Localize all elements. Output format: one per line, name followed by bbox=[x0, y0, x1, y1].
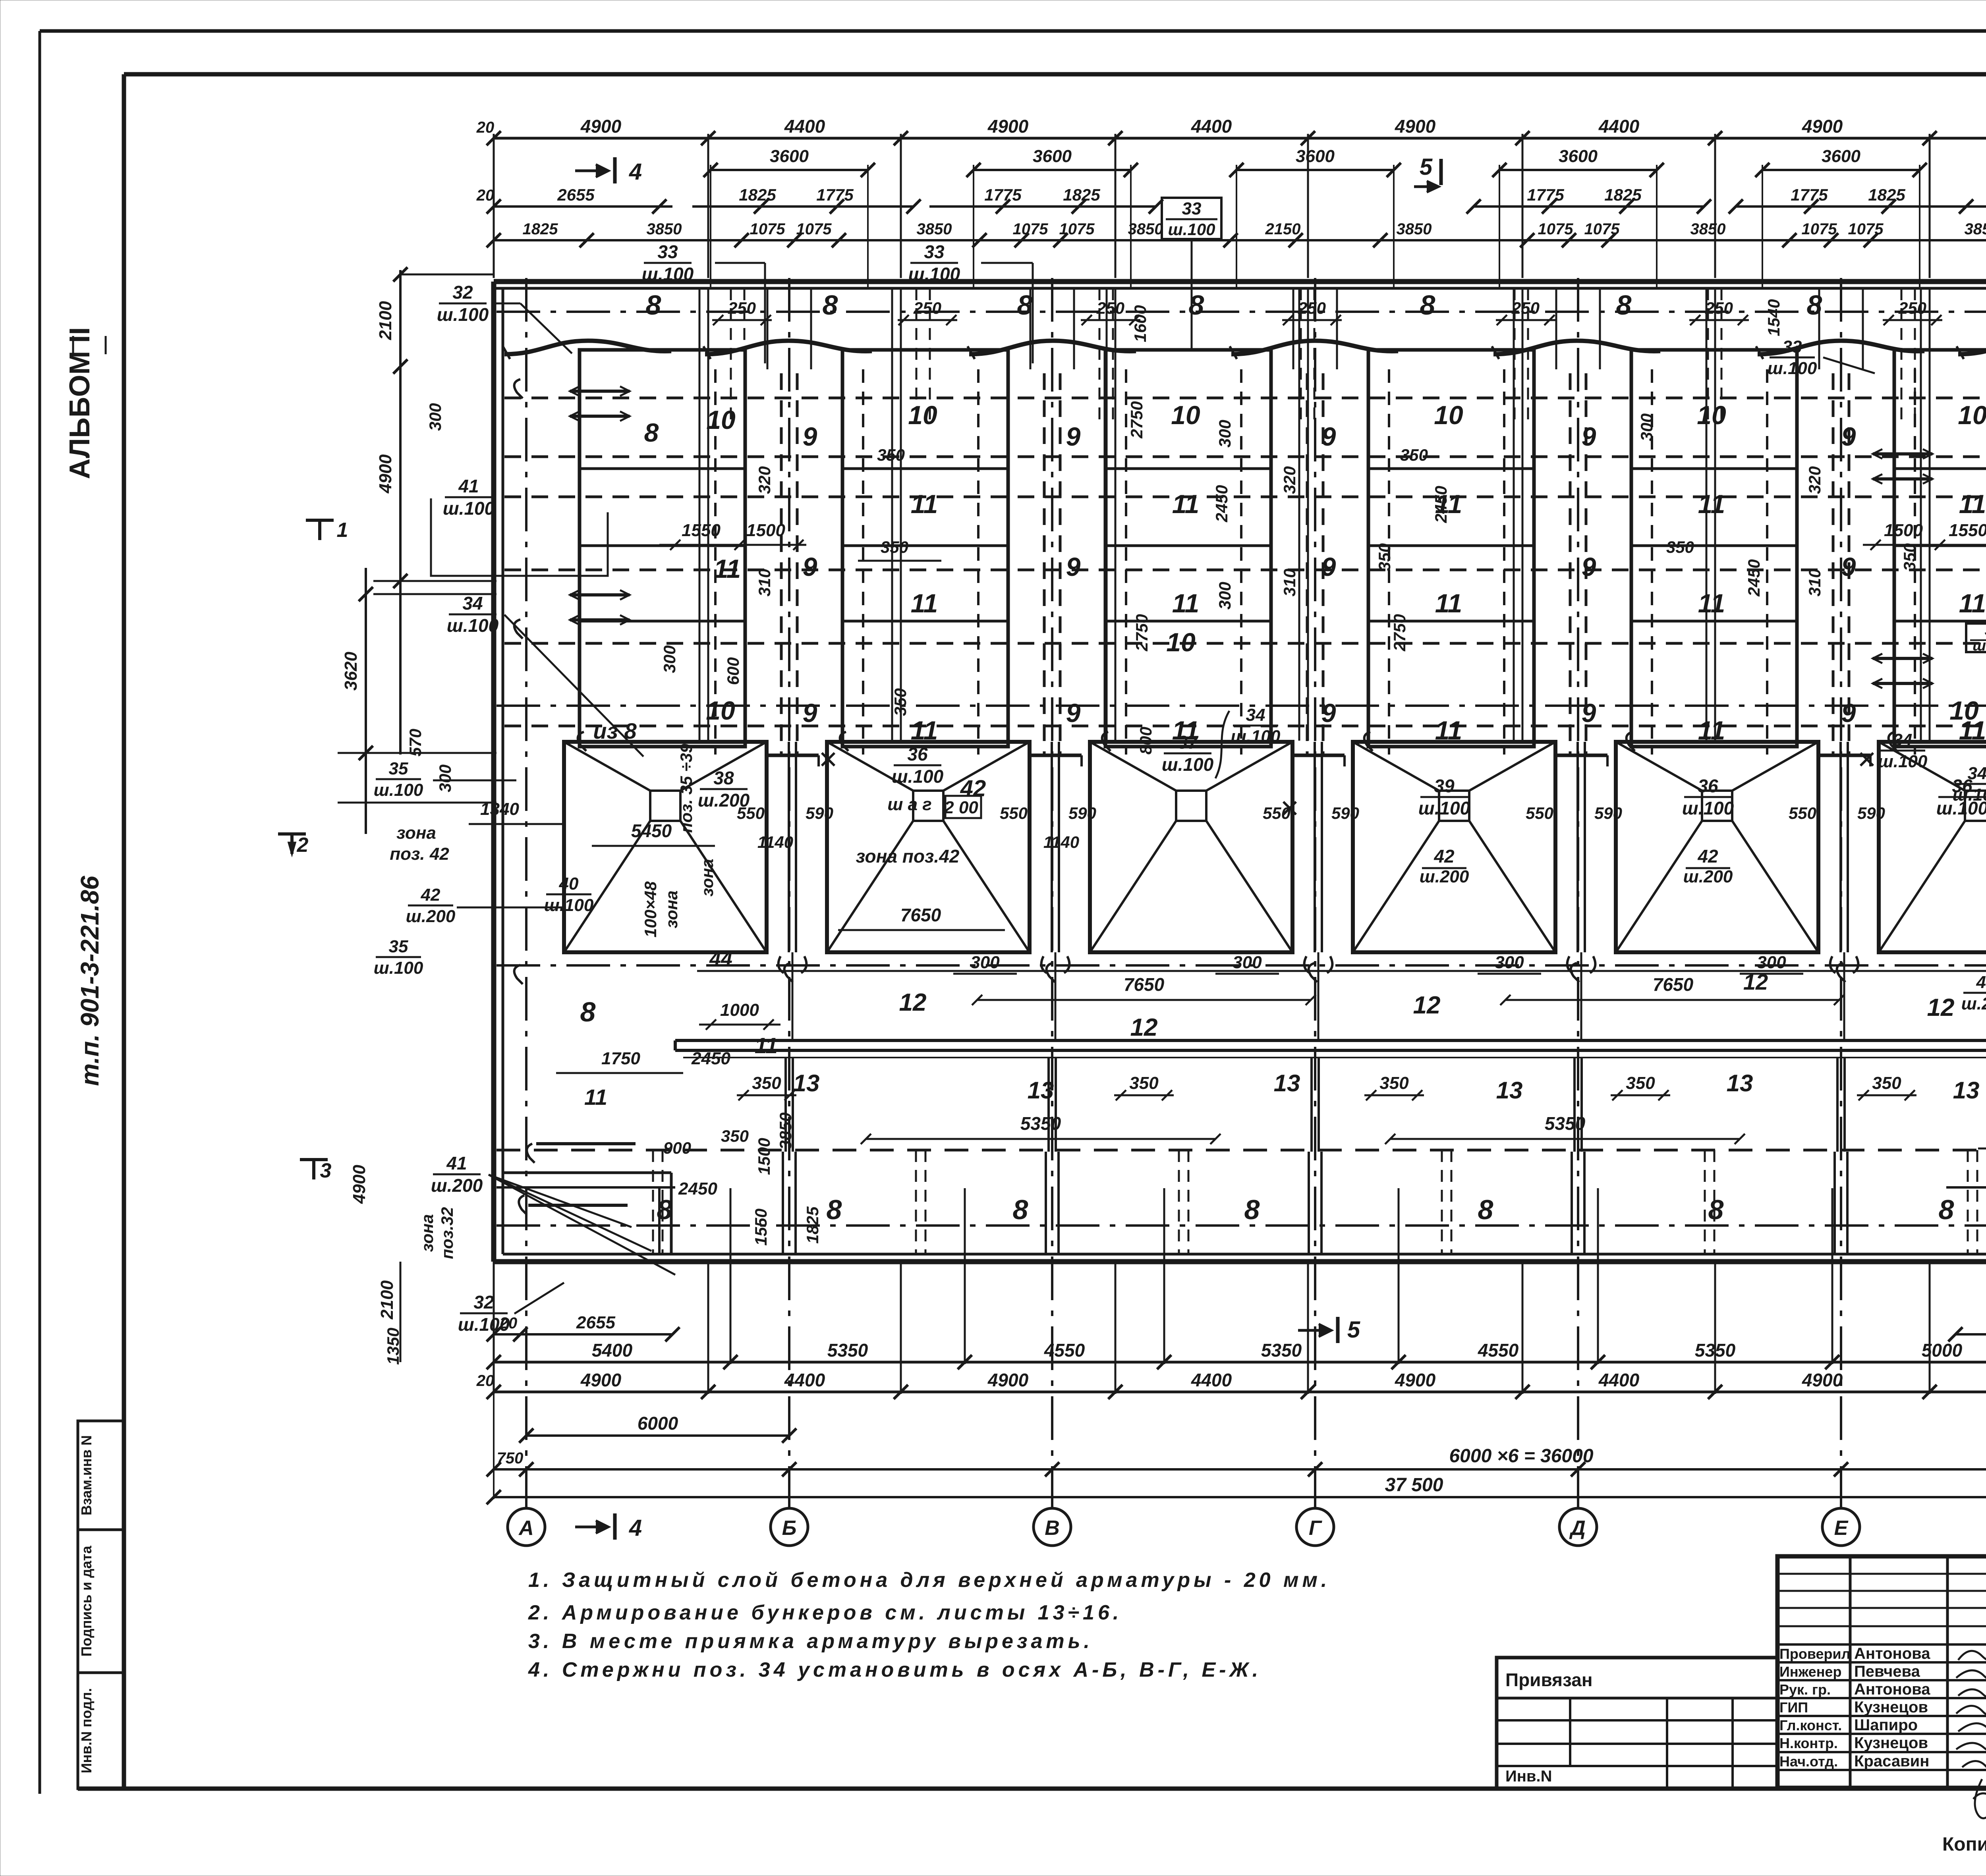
svg-text:1075: 1075 bbox=[1848, 220, 1884, 238]
svg-text:350: 350 bbox=[1129, 1073, 1159, 1093]
svg-text:В: В bbox=[1045, 1517, 1060, 1540]
svg-text:350: 350 bbox=[1626, 1073, 1655, 1093]
svg-text:3600: 3600 bbox=[1559, 147, 1598, 166]
svg-text:1825: 1825 bbox=[803, 1206, 822, 1244]
svg-text:9: 9 bbox=[1841, 552, 1856, 581]
svg-text:11: 11 bbox=[714, 554, 741, 583]
svg-text:20: 20 bbox=[476, 187, 495, 204]
svg-text:300: 300 bbox=[436, 764, 454, 792]
svg-text:4400: 4400 bbox=[1598, 116, 1640, 137]
svg-text:4550: 4550 bbox=[1044, 1340, 1085, 1361]
svg-text:Рук. гр.: Рук. гр. bbox=[1779, 1681, 1831, 1698]
svg-text:11: 11 bbox=[1698, 589, 1725, 618]
svg-text:4550: 4550 bbox=[1478, 1340, 1519, 1361]
svg-text:9: 9 bbox=[1582, 552, 1596, 581]
svg-text:Г: Г bbox=[1309, 1517, 1322, 1540]
svg-text:10: 10 bbox=[1434, 400, 1463, 430]
svg-text:250: 250 bbox=[1511, 299, 1540, 317]
svg-text:1550: 1550 bbox=[682, 521, 721, 540]
svg-text:4900: 4900 bbox=[580, 1370, 622, 1390]
svg-text:1: 1 bbox=[337, 519, 348, 542]
svg-text:Е: Е bbox=[1834, 1517, 1849, 1540]
svg-text:900: 900 bbox=[663, 1139, 691, 1157]
svg-text:1140: 1140 bbox=[1043, 833, 1079, 851]
svg-text:1500: 1500 bbox=[1884, 521, 1923, 540]
svg-text:34: 34 bbox=[462, 593, 483, 614]
svg-text:5450: 5450 bbox=[631, 820, 672, 841]
svg-text:Певчева: Певчева bbox=[1854, 1663, 1920, 1680]
svg-text:12: 12 bbox=[1130, 1014, 1158, 1041]
svg-text:250: 250 bbox=[1898, 299, 1926, 317]
svg-text:4400: 4400 bbox=[784, 116, 825, 137]
svg-text:10: 10 bbox=[706, 405, 736, 434]
svg-text:11: 11 bbox=[911, 489, 938, 519]
svg-text:8: 8 bbox=[1939, 1194, 1954, 1225]
svg-text:ш.100: ш.100 bbox=[544, 896, 594, 915]
axis horizontal dash-dot lines bbox=[496, 311, 1986, 313]
hopper 4 bbox=[1353, 742, 1555, 952]
svg-text:13: 13 bbox=[793, 1070, 820, 1096]
svg-text:Проверил: Проверил bbox=[1779, 1646, 1851, 1662]
svg-text:3850: 3850 bbox=[1128, 220, 1163, 238]
svg-text:32: 32 bbox=[452, 282, 473, 303]
svg-text:350: 350 bbox=[1400, 446, 1428, 464]
zone boundary verticals inside plan bbox=[707, 288, 709, 741]
svg-text:750: 750 bbox=[497, 1449, 524, 1467]
svg-text:Н.контр.: Н.контр. bbox=[1779, 1735, 1838, 1751]
column strip dashed lines bbox=[780, 373, 783, 757]
svg-text:зона: зона bbox=[662, 890, 681, 928]
svg-text:6000 ×6 = 36000: 6000 ×6 = 36000 bbox=[1449, 1446, 1593, 1467]
page border outer bbox=[40, 29, 1986, 33]
svg-text:9: 9 bbox=[803, 552, 817, 581]
inner frame bbox=[124, 72, 1986, 77]
svg-text:1500: 1500 bbox=[746, 521, 785, 540]
svg-text:8: 8 bbox=[1244, 1194, 1260, 1225]
svg-text:9: 9 bbox=[1582, 698, 1596, 728]
svg-text:2750: 2750 bbox=[1390, 614, 1409, 651]
svg-text:310: 310 bbox=[1280, 569, 1299, 596]
hopper gap walls bbox=[788, 742, 790, 952]
svg-text:250: 250 bbox=[1298, 299, 1326, 317]
svg-text:11: 11 bbox=[1698, 489, 1725, 519]
svg-text:3850: 3850 bbox=[776, 1112, 795, 1149]
section mark 4 top bbox=[575, 170, 608, 172]
svg-text:6000: 6000 bbox=[638, 1413, 678, 1434]
hopper 3 bbox=[1090, 742, 1292, 952]
svg-text:10: 10 bbox=[1958, 400, 1986, 430]
svg-text:1775: 1775 bbox=[984, 185, 1022, 204]
svg-text:1. Защитный слой бетона для ве: 1. Защитный слой бетона для верхней арма… bbox=[528, 1569, 1330, 1592]
svg-text:11: 11 bbox=[1435, 589, 1462, 618]
svg-text:590: 590 bbox=[806, 804, 833, 822]
svg-text:300: 300 bbox=[426, 403, 444, 431]
svg-text:4: 4 bbox=[629, 159, 642, 185]
left dim chain bbox=[399, 270, 402, 755]
svg-text:2450: 2450 bbox=[1212, 485, 1231, 522]
svg-text:Шапиро: Шапиро bbox=[1854, 1716, 1918, 1734]
svg-text:ш.100: ш.100 bbox=[443, 498, 495, 519]
svg-text:9: 9 bbox=[1582, 422, 1596, 451]
svg-text:550: 550 bbox=[1263, 804, 1291, 822]
svg-text:4900: 4900 bbox=[987, 1370, 1029, 1390]
horizontal dashed lines bunker zone bbox=[504, 397, 1986, 400]
vertical bars top of bays bbox=[767, 288, 769, 369]
svg-text:300: 300 bbox=[1637, 413, 1656, 441]
svg-text:Подпись и дата: Подпись и дата bbox=[78, 1546, 95, 1657]
svg-text:поз. 35 ÷39: поз. 35 ÷39 bbox=[677, 743, 695, 833]
top dim row 3 bbox=[494, 205, 672, 208]
svg-text:300: 300 bbox=[970, 953, 1000, 972]
svg-text:из 8: из 8 bbox=[593, 718, 637, 743]
svg-text:1550: 1550 bbox=[752, 1208, 770, 1245]
axis vertical dash-dot lines bbox=[525, 278, 527, 1508]
svg-text:9: 9 bbox=[1321, 552, 1336, 581]
svg-text:Инв.N подл.: Инв.N подл. bbox=[78, 1688, 95, 1774]
svg-text:590: 590 bbox=[1331, 804, 1359, 822]
svg-text:4400: 4400 bbox=[784, 1370, 825, 1390]
privyazan table bbox=[1497, 1658, 1777, 1789]
svg-text:Антонова: Антонова bbox=[1854, 1645, 1930, 1662]
svg-text:зона: зона bbox=[418, 1214, 437, 1252]
section mark 5 bottom bbox=[1298, 1329, 1331, 1332]
long dashed line bbox=[496, 1149, 1986, 1152]
svg-text:10: 10 bbox=[1166, 627, 1196, 657]
bottom dim 37500 bbox=[494, 1496, 1986, 1498]
svg-text:9: 9 bbox=[1841, 698, 1856, 728]
svg-text:550: 550 bbox=[1789, 804, 1816, 822]
svg-text:Инженер: Инженер bbox=[1779, 1664, 1841, 1680]
svg-text:ш.100: ш.100 bbox=[1682, 798, 1734, 818]
svg-text:300: 300 bbox=[1495, 953, 1524, 972]
svg-text:3850: 3850 bbox=[647, 220, 682, 238]
svg-text:3850: 3850 bbox=[1397, 220, 1432, 238]
svg-text:ш.100: ш.100 bbox=[892, 766, 944, 787]
svg-text:4: 4 bbox=[629, 1515, 642, 1541]
top dim row 4 bbox=[494, 239, 1986, 241]
svg-text:2750: 2750 bbox=[1132, 614, 1151, 651]
svg-text:39: 39 bbox=[1434, 776, 1455, 796]
bottom dim rowB bbox=[494, 1361, 1986, 1364]
svg-text:7650: 7650 bbox=[900, 905, 941, 925]
svg-text:4900: 4900 bbox=[1395, 1370, 1436, 1390]
bottom dim rowC bbox=[494, 1391, 1986, 1393]
svg-text:1775: 1775 bbox=[1527, 185, 1564, 204]
left attribute boxes bbox=[78, 1421, 124, 1530]
svg-text:ш.100: ш.100 bbox=[1953, 785, 1986, 805]
svg-text:34: 34 bbox=[1246, 705, 1265, 725]
svg-text:1075: 1075 bbox=[1538, 220, 1574, 238]
svg-text:35: 35 bbox=[389, 937, 408, 956]
svg-text:9: 9 bbox=[1066, 552, 1081, 581]
svg-text:34: 34 bbox=[1968, 764, 1986, 783]
svg-text:1750: 1750 bbox=[601, 1049, 640, 1068]
svg-text:1825: 1825 bbox=[739, 185, 776, 204]
svg-text:ш.200: ш.200 bbox=[1961, 994, 1986, 1013]
svg-text:4900: 4900 bbox=[580, 116, 622, 137]
svg-text:20: 20 bbox=[476, 1372, 495, 1390]
svg-text:310: 310 bbox=[755, 569, 774, 596]
svg-text:350: 350 bbox=[752, 1073, 781, 1093]
svg-text:Нач.отд.: Нач.отд. bbox=[1779, 1753, 1838, 1770]
svg-text:1825: 1825 bbox=[1604, 185, 1642, 204]
svg-text:41: 41 bbox=[458, 476, 479, 496]
svg-text:8: 8 bbox=[1013, 1194, 1028, 1225]
svg-text:2450: 2450 bbox=[1432, 486, 1450, 523]
svg-text:1075: 1075 bbox=[796, 220, 832, 238]
svg-text:320: 320 bbox=[1280, 466, 1299, 494]
svg-text:13: 13 bbox=[1953, 1077, 1980, 1104]
svg-text:А: А bbox=[518, 1517, 534, 1540]
svg-text:12: 12 bbox=[899, 989, 927, 1016]
svg-text:11: 11 bbox=[911, 589, 938, 618]
svg-text:Кузнецов: Кузнецов bbox=[1854, 1698, 1928, 1716]
svg-text:10: 10 bbox=[1697, 400, 1726, 430]
svg-text:4900: 4900 bbox=[350, 1165, 369, 1204]
svg-text:ш а г: ш а г bbox=[887, 795, 932, 814]
svg-text:9: 9 bbox=[1066, 422, 1081, 451]
svg-text:11: 11 bbox=[1172, 489, 1200, 519]
svg-text:3600: 3600 bbox=[770, 147, 809, 166]
svg-text:350: 350 bbox=[881, 538, 908, 556]
svg-text:13: 13 bbox=[1274, 1070, 1300, 1096]
svg-text:12: 12 bbox=[1743, 969, 1768, 994]
svg-text:5000: 5000 bbox=[1922, 1340, 1963, 1361]
extension lines below plan bbox=[493, 1262, 495, 1394]
svg-text:33: 33 bbox=[1783, 337, 1802, 357]
svg-text:300: 300 bbox=[1233, 953, 1262, 972]
svg-text:9: 9 bbox=[1841, 422, 1856, 451]
svg-text:5: 5 bbox=[1420, 154, 1433, 180]
svg-text:ш.100: ш.100 bbox=[642, 264, 694, 284]
partial solid lines bbox=[496, 1186, 675, 1189]
zone 12 bbox=[697, 970, 1986, 972]
svg-text:3850: 3850 bbox=[1965, 220, 1986, 238]
svg-text:ш.200: ш.200 bbox=[406, 907, 456, 926]
extension lines above plan bbox=[493, 134, 495, 278]
svg-text:8: 8 bbox=[1420, 290, 1435, 320]
svg-text:2450: 2450 bbox=[678, 1179, 717, 1199]
svg-text:11: 11 bbox=[584, 1085, 607, 1110]
svg-text:13: 13 bbox=[1727, 1070, 1753, 1096]
svg-text:12: 12 bbox=[1927, 994, 1955, 1021]
svg-text:ш.200: ш.200 bbox=[1972, 637, 1986, 654]
rebar arrow pairs bbox=[570, 390, 630, 393]
svg-text:2655: 2655 bbox=[576, 1313, 615, 1332]
bottom dim 36000 bbox=[494, 1468, 1986, 1471]
svg-text:1600: 1600 bbox=[1131, 305, 1149, 342]
svg-text:37 500: 37 500 bbox=[1385, 1475, 1443, 1496]
svg-text:8: 8 bbox=[1708, 1194, 1724, 1225]
svg-text:7650: 7650 bbox=[1124, 974, 1165, 995]
svg-text:37: 37 bbox=[1177, 732, 1199, 753]
svg-text:600: 600 bbox=[724, 657, 742, 685]
svg-text:ш.100: ш.100 bbox=[1162, 754, 1214, 775]
svg-text:Взам.инв N: Взам.инв N bbox=[78, 1435, 95, 1515]
svg-text:11: 11 bbox=[755, 1033, 778, 1058]
svg-text:33: 33 bbox=[657, 241, 678, 262]
signatures bbox=[1958, 1648, 1986, 1662]
svg-text:42: 42 bbox=[421, 885, 440, 905]
svg-text:9: 9 bbox=[803, 422, 817, 451]
x marks bbox=[822, 753, 835, 766]
svg-text:1075: 1075 bbox=[1802, 220, 1837, 238]
svg-text:3600: 3600 bbox=[1296, 147, 1335, 166]
svg-text:3600: 3600 bbox=[1033, 147, 1072, 166]
svg-text:4900: 4900 bbox=[1802, 1370, 1843, 1390]
top dim row 1 bbox=[494, 137, 1986, 140]
hopper 5 bbox=[1616, 742, 1818, 952]
svg-text:550: 550 bbox=[1000, 804, 1028, 822]
svg-text:9: 9 bbox=[1066, 698, 1081, 728]
svg-text:9: 9 bbox=[1321, 698, 1336, 728]
svg-text:13: 13 bbox=[1496, 1077, 1523, 1104]
svg-text:1825: 1825 bbox=[523, 220, 558, 238]
svg-text:20: 20 bbox=[476, 119, 495, 136]
title block stamp bbox=[1777, 1556, 1986, 1788]
pit outline bottom left bbox=[503, 1172, 671, 1174]
svg-text:ш.100: ш.100 bbox=[1768, 359, 1817, 378]
solid rows inside bunker rects bbox=[580, 467, 745, 470]
svg-text:ш.100: ш.100 bbox=[1878, 752, 1928, 771]
top dim row 2 (3600) bbox=[711, 169, 868, 171]
svg-text:100×48: 100×48 bbox=[641, 881, 660, 938]
svg-text:1500: 1500 bbox=[755, 1138, 773, 1175]
svg-text:ш.100: ш.100 bbox=[437, 304, 489, 325]
svg-text:590: 590 bbox=[1068, 804, 1096, 822]
svg-text:3. В месте приямка арматуру вы: 3. В месте приямка арматуру вырезать. bbox=[528, 1630, 1093, 1653]
svg-text:350: 350 bbox=[721, 1127, 749, 1145]
svg-text:Копировал Музафарова: Копировал Музафарова bbox=[1942, 1834, 1986, 1855]
svg-text:44: 44 bbox=[709, 948, 732, 971]
svg-text:1825: 1825 bbox=[1063, 185, 1100, 204]
svg-text:40: 40 bbox=[559, 874, 579, 894]
svg-text:320: 320 bbox=[1805, 466, 1824, 494]
svg-text:11: 11 bbox=[1959, 589, 1986, 618]
svg-text:зона: зона bbox=[698, 859, 717, 896]
svg-text:1540: 1540 bbox=[1764, 299, 1783, 336]
svg-text:11: 11 bbox=[1172, 589, 1200, 618]
svg-text:т.п. 901-3-221.86: т.п. 901-3-221.86 bbox=[75, 876, 104, 1086]
svg-text:Антонова: Антонова bbox=[1854, 1681, 1930, 1698]
svg-text:ш.100: ш.100 bbox=[374, 958, 423, 978]
svg-text:1775: 1775 bbox=[816, 185, 854, 204]
svg-text:13: 13 bbox=[1028, 1077, 1054, 1104]
svg-text:34: 34 bbox=[1893, 730, 1913, 750]
svg-text:2450: 2450 bbox=[1745, 559, 1763, 596]
svg-text:300: 300 bbox=[660, 645, 679, 673]
svg-text:2100: 2100 bbox=[377, 1280, 397, 1320]
svg-text:ш.200: ш.200 bbox=[1683, 867, 1733, 886]
svg-text:4900: 4900 bbox=[1802, 116, 1843, 137]
svg-text:8: 8 bbox=[823, 290, 838, 320]
svg-text:Гл.конст.: Гл.конст. bbox=[1779, 1717, 1842, 1733]
svg-text:10: 10 bbox=[1171, 400, 1200, 430]
svg-text:3600: 3600 bbox=[1822, 147, 1860, 166]
svg-text:5350: 5350 bbox=[1545, 1113, 1586, 1134]
svg-text:4900: 4900 bbox=[376, 454, 395, 494]
svg-text:350: 350 bbox=[1375, 543, 1394, 571]
svg-text:поз.32: поз.32 bbox=[438, 1207, 456, 1259]
svg-text:12: 12 bbox=[1413, 992, 1441, 1019]
bunker rectangles bbox=[580, 350, 745, 747]
svg-text:550: 550 bbox=[737, 804, 765, 822]
svg-text:350: 350 bbox=[1872, 1073, 1901, 1093]
svg-text:10: 10 bbox=[908, 400, 937, 430]
svg-text:2655: 2655 bbox=[557, 185, 595, 204]
svg-text:3850: 3850 bbox=[1690, 220, 1726, 238]
svg-text:Красавин: Красавин bbox=[1854, 1752, 1929, 1770]
svg-text:ш.100: ш.100 bbox=[458, 1314, 510, 1335]
33 boxed label bbox=[1162, 198, 1221, 239]
svg-text:11: 11 bbox=[1959, 489, 1986, 519]
svg-text:350: 350 bbox=[1666, 538, 1694, 556]
svg-text:1075: 1075 bbox=[1013, 220, 1049, 238]
svg-text:4400: 4400 bbox=[1191, 116, 1232, 137]
svg-text:5: 5 bbox=[1347, 1317, 1360, 1343]
svg-text:43: 43 bbox=[1976, 973, 1986, 992]
vertical separators band 13 bbox=[784, 1058, 787, 1152]
rebar hooks bbox=[514, 379, 523, 398]
svg-text:10: 10 bbox=[706, 696, 735, 725]
svg-text:8: 8 bbox=[657, 1194, 672, 1225]
svg-text:4900: 4900 bbox=[1395, 116, 1436, 137]
svg-text:ш.100: ш.100 bbox=[1418, 798, 1470, 818]
bottom dim rowA bbox=[494, 1333, 672, 1336]
svg-text:250: 250 bbox=[1705, 299, 1733, 317]
hopper 2 bbox=[827, 742, 1030, 952]
svg-text:36: 36 bbox=[907, 744, 928, 764]
svg-text:2150: 2150 bbox=[1265, 220, 1301, 238]
svg-text:350: 350 bbox=[1379, 1073, 1409, 1093]
svg-text:310: 310 bbox=[1805, 569, 1824, 596]
svg-text:8: 8 bbox=[1478, 1194, 1493, 1225]
svg-text:33: 33 bbox=[924, 241, 945, 262]
svg-text:АЛЬБОМ II: АЛЬБОМ II bbox=[64, 327, 96, 479]
svg-text:1550: 1550 bbox=[1949, 521, 1986, 540]
svg-text:1075: 1075 bbox=[750, 220, 786, 238]
svg-text:ш.100: ш.100 bbox=[374, 780, 423, 800]
svg-text:2450: 2450 bbox=[691, 1049, 730, 1068]
plan outer walls bbox=[494, 279, 1986, 284]
svg-text:3: 3 bbox=[320, 1159, 332, 1182]
svg-text:35: 35 bbox=[389, 759, 408, 778]
svg-text:8: 8 bbox=[1616, 290, 1632, 320]
svg-text:Привязан: Привязан bbox=[1505, 1669, 1593, 1690]
svg-text:250: 250 bbox=[728, 299, 756, 317]
section marks left bbox=[306, 519, 334, 522]
svg-text:2: 2 bbox=[297, 834, 309, 857]
svg-text:ГИП: ГИП bbox=[1779, 1699, 1808, 1716]
svg-text:ш.100: ш.100 bbox=[908, 264, 960, 284]
svg-text:4400: 4400 bbox=[1191, 1370, 1232, 1390]
svg-text:1000: 1000 bbox=[720, 1000, 759, 1020]
38 boxed right bbox=[1966, 623, 1986, 652]
svg-text:33: 33 bbox=[1182, 199, 1202, 218]
svg-text:38: 38 bbox=[713, 768, 734, 788]
svg-text:2750: 2750 bbox=[1127, 401, 1146, 438]
svg-text:590: 590 bbox=[1857, 804, 1885, 822]
hopper 1 bbox=[564, 742, 767, 952]
svg-text:зона поз.42: зона поз.42 bbox=[856, 846, 960, 867]
svg-text:8: 8 bbox=[580, 996, 596, 1027]
svg-text:300: 300 bbox=[1215, 420, 1234, 448]
svg-text:поз. 42: поз. 42 bbox=[390, 844, 449, 864]
svg-text:3850: 3850 bbox=[917, 220, 952, 238]
wavy break lines bbox=[504, 341, 671, 354]
svg-text:250: 250 bbox=[913, 299, 941, 317]
svg-text:Д: Д bbox=[1569, 1517, 1586, 1540]
